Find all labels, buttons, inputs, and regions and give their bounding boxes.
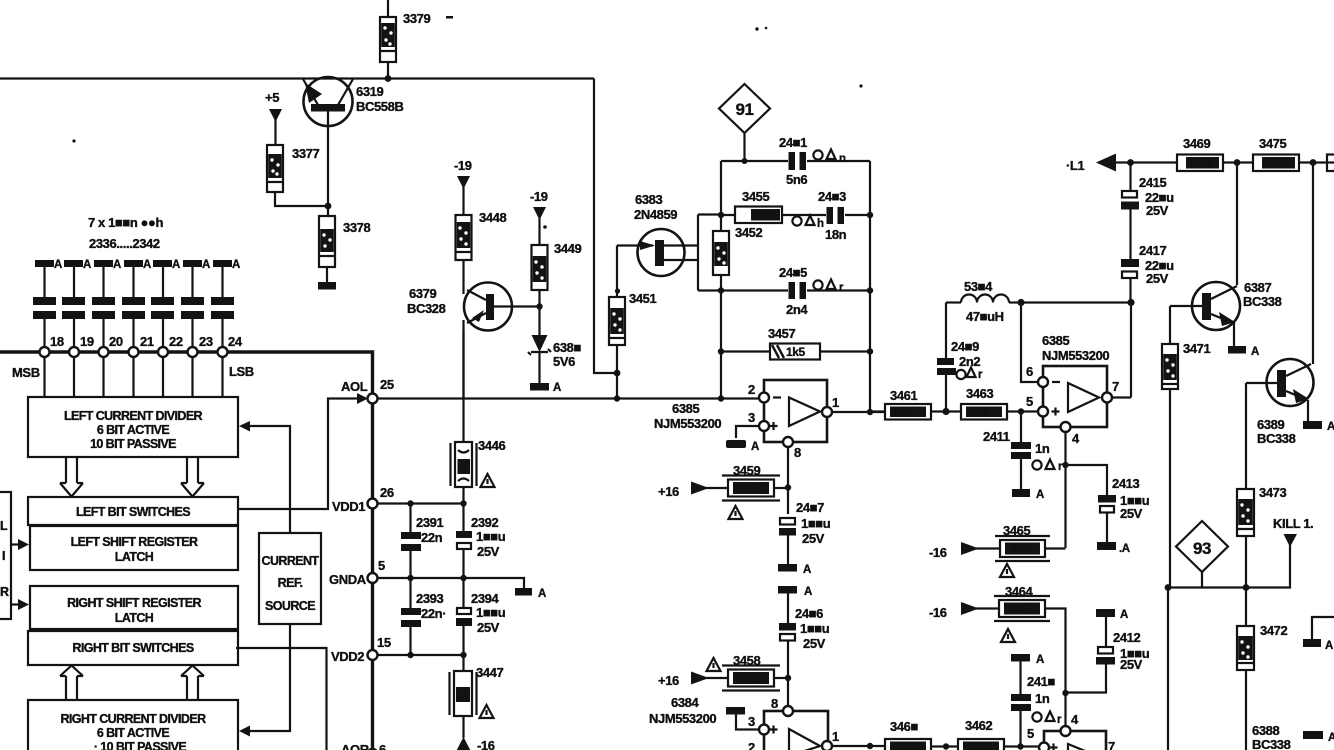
svg-text:3462: 3462 [965,718,992,733]
svg-text:1n: 1n [1035,691,1050,706]
svg-text:3475: 3475 [1259,136,1286,151]
svg-text:25V: 25V [1146,203,1169,218]
resistor R3462 2k4 [958,739,1004,750]
wire node to 2417 node [1021,301,1131,303]
svg-text:3472: 3472 [1260,623,1287,638]
svg-text:3473: 3473 [1259,485,1286,500]
ground cap C2340 [151,259,180,352]
transistor Q6387 BC338 [1170,282,1240,346]
wire 2409 up to inductor [945,303,947,412]
svg-text:· 10 BIT PASSIVE: · 10 BIT PASSIVE [94,740,187,750]
wire VDD2 rail [378,654,464,656]
pin circle 22 [158,347,168,357]
svg-text:A: A [1036,654,1044,666]
svg-text:3378: 3378 [343,220,370,235]
svg-text:4: 4 [1071,712,1079,727]
resistor R3378 10k [319,216,335,267]
node pin8/3459 [785,484,791,490]
resistor R3377 100k [267,145,283,192]
svg-text:241■: 241■ [1027,674,1055,689]
node row4 right [867,348,873,354]
node junction 3379/top rail [385,75,392,82]
svg-text:2415: 2415 [1139,175,1166,190]
svg-text:-19: -19 [454,158,472,173]
supply arrow KILL [1284,534,1298,547]
svg-text:2417: 2417 [1139,243,1166,258]
wire left rail down [1167,588,1169,750]
wire 3464 to node [1045,609,1066,694]
node output rail 6384 [867,743,873,749]
wire right bit switches to AOR [236,648,327,750]
op-amp U6385b [1038,366,1112,432]
svg-text:2N4859: 2N4859 [634,207,677,222]
wire top rail [0,77,594,79]
resistor R3465 33E [995,536,1050,561]
op-amp U6384b [1039,726,1106,750]
node row4 left [718,348,724,354]
wire 2411 to ground [1020,459,1022,489]
capacitor C2393 22n [401,608,421,627]
capacitor C2391 22n [401,532,421,551]
resistor R3446 [451,442,477,487]
svg-text:93: 93 [1193,539,1211,558]
node rail elbow 3451 [614,370,621,377]
svg-text:BC338: BC338 [1243,294,1282,309]
pin circle 21 [129,347,139,357]
svg-text:BC338: BC338 [1252,737,1291,750]
svg-text:5: 5 [1027,726,1034,741]
wire GNDA rail [378,578,525,588]
svg-text:6 BIT ACTIVE: 6 BIT ACTIVE [97,423,169,437]
svg-text:6385: 6385 [1042,333,1069,348]
svg-text:1n: 1n [1035,441,1050,456]
speck dots [72,139,75,142]
ground 2413 [1097,542,1116,550]
svg-text:LEFT BIT SWITCHES: LEFT BIT SWITCHES [76,505,190,519]
svg-text:1: 1 [832,729,839,744]
op-amp U6385a [759,380,832,447]
svg-text:25: 25 [380,377,394,392]
node 2412/3464/pin4 [1062,690,1068,696]
block partial left edge box [0,492,11,619]
svg-text:R: R [0,585,9,599]
node output/right rail [867,409,873,415]
svg-text:A: A [538,588,546,600]
svg-text:5V6: 5V6 [553,354,575,369]
svg-text:1■■E: 1■■E [1188,158,1215,170]
node 2410/rail [1017,743,1023,749]
node kill row left [1165,584,1172,591]
ground right bottom [1303,731,1323,739]
diode zener D6380 5V6 [528,335,551,383]
svg-text:RIGHT CURRENT DIVIDER: RIGHT CURRENT DIVIDER [60,712,206,726]
wire AOL to opamp pin2 [378,397,765,399]
block LEFT BIT SWITCHES [28,497,238,525]
node 3469/3475 [1234,159,1241,166]
svg-text:2n2: 2n2 [959,354,980,369]
wire ic top bus [0,352,373,750]
resistor R3452 47 [713,231,729,275]
block RIGHT CURRENT DIVIDER [28,700,238,750]
svg-text:6: 6 [1026,364,1033,379]
wire left bit switches to AOL [238,399,360,510]
svg-text:n: n [839,153,846,165]
resistor edge fragment [1327,155,1334,172]
node 2411 junction [1018,408,1024,414]
wire 2417 to node [1129,278,1131,303]
svg-text:2k4: 2k4 [970,407,989,419]
node 3458 junction [785,675,791,681]
svg-text:MSB: MSB [12,365,40,380]
block CURRENT REF SOURCE [259,533,321,624]
svg-text:1■■E: 1■■E [1264,158,1291,170]
node VDD2/2393 [407,652,413,658]
node kill row 3472 [1243,584,1250,591]
svg-text:20: 20 [109,334,123,349]
warning triangle 3446 [481,474,495,487]
resistor R3473 1k2 [1237,489,1254,536]
svg-text:2393: 2393 [416,591,443,606]
wire 2391 branch [409,504,411,656]
svg-text:2412: 2412 [1113,630,1140,645]
svg-text:2n4: 2n4 [786,302,808,317]
svg-text:2k4: 2k4 [967,742,986,750]
svg-text:6319: 6319 [356,84,383,99]
wires pins to divider box [45,357,223,397]
svg-text:24■1: 24■1 [779,135,807,150]
svg-text:CURRENT: CURRENT [262,554,320,568]
ground cap C2336 [33,259,62,352]
svg-text:22n: 22n [421,530,443,545]
wire into 3378 [327,206,328,282]
svg-text:24■5: 24■5 [779,265,807,280]
pin circle 23 [188,347,198,357]
svg-text:5: 5 [378,558,385,573]
block arrow down right [181,457,204,497]
svg-text:A: A [1036,489,1044,501]
svg-text:25V: 25V [1146,271,1169,286]
svg-text:25V: 25V [803,636,826,651]
svg-text:3465: 3465 [1003,523,1030,538]
svg-text:-16: -16 [929,605,947,620]
svg-text:.A: .A [1119,543,1130,555]
capacitor C2394 100u 25V [456,608,472,626]
svg-text:3: 3 [748,714,755,729]
resistor R3464 33E [994,596,1050,621]
capacitor C2409 2n2 [937,358,956,375]
pin VDD2 15 [368,650,378,660]
resistor R3463 2k4 [961,404,1007,420]
node GNDA/2391 [407,575,413,581]
ground 2411 [1012,489,1030,497]
svg-text:91: 91 [735,100,753,119]
node junction at 3378 top [325,203,332,210]
svg-text:3452: 3452 [735,225,762,240]
svg-text:·L1: ·L1 [1066,158,1084,173]
svg-text:3446: 3446 [478,438,505,453]
svg-text:18n: 18n [825,227,847,242]
node row2 right [867,212,873,218]
block RIGHT SHIFT REGISTER LATCH [30,586,238,629]
wire filter row3 [721,289,870,291]
resistor R3469 100E [1177,155,1223,172]
ground 2407 [778,564,797,572]
svg-text:3379: 3379 [403,11,430,26]
wire ground to 2410 [1019,661,1021,694]
wire ground to 2406 [787,593,789,623]
node 3475 right [1310,159,1317,166]
pin GNDA 5 [368,573,378,583]
node gate dot [615,288,620,293]
svg-text:3471: 3471 [1183,341,1210,356]
svg-text:GNDA: GNDA [329,572,367,587]
pin VDD1 26 [368,499,378,509]
node 93 diamond [1176,521,1228,588]
speck dash [446,16,453,19]
warning triangle 3464 [1001,629,1015,642]
node pin4/2413 [1062,462,1068,468]
svg-text:LATCH: LATCH [115,611,154,625]
resistor R3449 [532,245,548,290]
wire filter right rail [869,161,871,412]
svg-text:10 BIT PASSIVE: 10 BIT PASSIVE [90,437,176,451]
svg-text:2391: 2391 [416,515,443,530]
arrow L1 out [1096,154,1116,172]
svg-text:2k4: 2k4 [894,742,913,750]
svg-text:3459: 3459 [733,463,760,478]
wire 2413 to ground [1106,513,1108,542]
block arrow up left [60,666,83,701]
block LEFT CURRENT DIVIDER [28,397,238,457]
svg-text:23: 23 [199,334,213,349]
wire 3472 down [1245,588,1247,750]
warning triangle 3465 [1000,564,1014,577]
ground below 3378 [318,282,336,290]
svg-text:3451: 3451 [629,291,656,306]
svg-text:6379: 6379 [409,286,436,301]
wire pin6 drop [1021,303,1039,383]
svg-text:A: A [202,259,210,271]
node diamond/top row [742,158,748,164]
resistor R3379 100k [380,17,396,62]
resistor R3447 [450,671,477,716]
svg-text:1k5: 1k5 [786,345,806,359]
pin circle 20 [99,347,109,357]
svg-text:-16: -16 [477,738,495,750]
wire 2407 to ground [787,535,789,564]
svg-text:AOL: AOL [341,379,368,394]
svg-text:2336.....2342: 2336.....2342 [89,236,160,251]
wire 6389 base to 3473 [1245,383,1247,588]
wire ground to 2412 [1105,617,1107,647]
node GNDA/2392 [460,575,466,581]
ground U6384 pin3 [726,707,745,715]
capacitor C2412 100u 25V [1096,647,1115,665]
pin circle 19 [69,347,79,357]
capacitor C2401 5n6 [789,152,807,170]
capacitor C2417 220u 25V [1121,259,1139,278]
svg-text:AOR: AOR [341,742,370,750]
svg-text:53■4: 53■4 [964,279,993,294]
svg-text:5: 5 [1026,394,1033,409]
svg-text:8: 8 [794,445,801,460]
resistor R3460 2k4 [885,739,931,750]
supply -16 bottom [457,737,471,750]
transistor Q6383 2N4859 [617,215,721,291]
svg-text:3457: 3457 [768,326,795,341]
wire pin3 ground [736,426,760,438]
wire pin8 down [787,447,789,515]
svg-text:1■■u: 1■■u [476,529,506,544]
svg-text:47■uH: 47■uH [966,309,1004,324]
wire 3377 to collector node [275,192,328,206]
wire 3465 to pin4 rail [1045,547,1066,549]
wire current ref to divider R [248,624,290,731]
svg-text:A: A [1325,640,1333,652]
block RIGHT BIT SWITCHES [28,631,238,665]
transistor Q6379 BC328 [464,283,541,398]
ground 6387 [1228,346,1246,354]
wire pin4 up to node [1064,693,1066,726]
wire 3449 to node [538,290,540,335]
svg-text:REF.: REF. [278,576,303,590]
svg-text:6387: 6387 [1244,280,1271,295]
svg-text:19: 19 [80,334,94,349]
ground 6389 [1303,421,1322,429]
resistor R3458 33E [722,666,788,691]
ground 6380 [530,383,549,391]
svg-text:BC558B: BC558B [356,99,403,114]
node base 6379 [536,303,542,309]
wire arrow into latch R [11,603,22,605]
wire 3461 row [870,410,1039,412]
wire pin4 down [1064,432,1066,549]
svg-text:4: 4 [1072,431,1080,446]
capacitor C2406 100u 25V [779,623,796,641]
svg-text:638■: 638■ [553,340,581,355]
svg-text:h: h [817,218,824,230]
svg-text:A: A [83,259,91,271]
ground 2412 top [1096,609,1115,617]
wire KILL down to row [1168,545,1290,588]
resistor R3461 2k4 [885,404,931,420]
mark adjust r 2411 [1032,460,1063,474]
svg-text:LEFT SHIFT REGISTER: LEFT SHIFT REGISTER [71,535,198,549]
svg-text:346■: 346■ [890,719,918,734]
svg-text:A: A [1251,346,1259,358]
svg-text:LEFT CURRENT DIVIDER: LEFT CURRENT DIVIDER [64,409,203,423]
svg-text:A: A [803,564,811,576]
svg-text:A: A [804,586,812,598]
svg-text:VDD2: VDD2 [331,649,364,664]
svg-text:LATCH: LATCH [115,550,154,564]
svg-text:LSB: LSB [229,364,254,379]
pin circle 18 [40,347,50,357]
mark adjust r 2410 [1032,712,1062,727]
wire ground to pin3 6384 [736,714,760,730]
svg-text:VDD1: VDD1 [332,499,365,514]
transistor Q6389 BC338 [1246,359,1314,421]
node VDD1/2391 [407,500,413,506]
svg-text:25V: 25V [802,531,825,546]
ground cap C2338 [92,259,121,352]
mark adjust n [813,150,846,166]
resistor R3455 820E [735,207,782,224]
svg-text:3463: 3463 [966,386,993,401]
svg-text:18: 18 [50,334,64,349]
svg-text:A: A [553,382,561,394]
svg-text:7 x 1■■n ●●h: 7 x 1■■n ●●h [88,215,163,230]
resistor R3451 [609,297,625,345]
capacitor C2407 100u 25V [779,518,796,536]
svg-text:3461: 3461 [890,388,917,403]
svg-text:22n·: 22n· [421,606,446,621]
node 2415 [1127,159,1134,166]
svg-text:24■3: 24■3 [818,189,846,204]
wire feed into resistor 3379 [387,0,389,79]
svg-text:3377: 3377 [292,146,319,161]
capacitor C2403 18n [827,207,845,224]
svg-text:+16: +16 [658,484,679,499]
wire filter row4 [721,350,870,352]
wire pin1 output [832,411,886,413]
svg-text:KILL 1.: KILL 1. [1273,516,1313,531]
ground U6385a [726,440,746,448]
svg-text:3455: 3455 [742,189,769,204]
block LEFT SHIFT REGISTER LATCH [30,526,238,570]
svg-text:2392: 2392 [471,515,498,530]
svg-text:A: A [1327,421,1334,433]
svg-text:A: A [113,259,121,271]
capacitor C2413 100u 25V [1098,495,1116,513]
capacitor C2410 1n [1011,694,1031,711]
node VDD2/3447 [460,652,466,658]
svg-text:82■E: 82■E [752,210,777,222]
wire 2412 to node [1066,664,1107,693]
block arrow up right [181,666,204,701]
resistor R3471 1k2 [1162,344,1178,389]
svg-text:2394: 2394 [471,591,499,606]
svg-text:24■9: 24■9 [951,339,979,354]
svg-text:2: 2 [748,740,755,750]
wire 2415 to 2417 [1129,210,1131,260]
svg-text:NJM553200: NJM553200 [649,711,716,726]
wire gate line 6383 to 3451 [616,246,618,398]
svg-text:7: 7 [1112,379,1119,394]
svg-text:6389: 6389 [1257,417,1284,432]
pin AOR 6 [368,749,378,750]
svg-text:A: A [54,259,62,271]
svg-text:25V: 25V [1120,657,1143,672]
resistor R3448 [456,215,472,260]
inductor L5304 470uH [946,295,1021,303]
wire VDD1 rail [378,502,464,504]
wire filter left rail [720,161,722,399]
wire pin7 to rail [1112,303,1132,398]
svg-text:1■■u: 1■■u [476,605,506,620]
wire 2410 to rail [1019,711,1021,747]
svg-text:NJM553200: NJM553200 [1042,348,1109,363]
svg-text:24■6: 24■6 [795,606,823,621]
svg-text:BC338: BC338 [1257,431,1296,446]
svg-text:RIGHT SHIFT REGISTER: RIGHT SHIFT REGISTER [67,596,201,610]
capacitor C2415 220u 25V [1129,163,1131,192]
svg-text:A: A [1120,609,1128,621]
capacitor C2411 1n [1020,412,1022,443]
svg-text:-16: -16 [929,545,947,560]
svg-text:33E: 33E [739,484,759,496]
ground cap C2341 [181,259,210,352]
